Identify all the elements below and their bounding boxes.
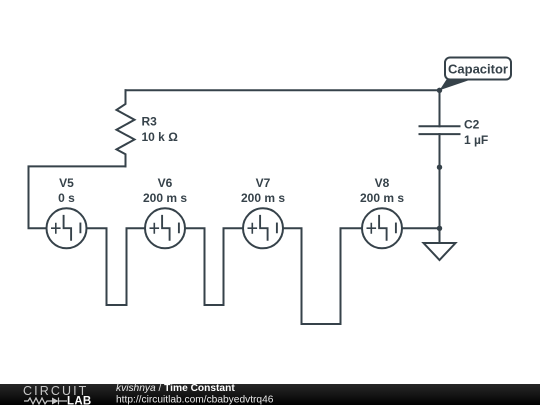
label V7 bbox=[241, 176, 285, 205]
wire V7 to V8 (deep step down) bbox=[283, 228, 362, 324]
node A (top capacitor node) bbox=[437, 88, 442, 93]
label V5 bbox=[58, 176, 75, 205]
label C2 value bbox=[464, 118, 488, 148]
svg-text:http://circuitlab.com/cbabyedv: http://circuitlab.com/cbabyedvtrq46 bbox=[116, 395, 274, 405]
resistor R3 bbox=[117, 90, 135, 166]
label V6 bbox=[143, 176, 187, 205]
wire top horizontal bbox=[126, 89, 440, 91]
svg-text:C2: C2 bbox=[464, 118, 480, 132]
voltage source V5 bbox=[47, 208, 87, 248]
ground bbox=[424, 228, 456, 260]
svg-text:200 m s: 200 m s bbox=[360, 191, 404, 205]
node C (ground junction) bbox=[437, 226, 442, 231]
wire C2 bottom to ground node bbox=[439, 167, 441, 228]
footer bar bbox=[0, 384, 540, 405]
svg-text:V8: V8 bbox=[375, 176, 390, 190]
wire from R3 bottom to V5 bbox=[29, 166, 126, 228]
wire V6 to V7 (step down) bbox=[185, 228, 243, 305]
svg-text:V5: V5 bbox=[59, 176, 74, 190]
voltage source V7 bbox=[243, 208, 283, 248]
svg-text:200 m s: 200 m s bbox=[143, 191, 187, 205]
svg-text:1 µF: 1 µF bbox=[464, 133, 488, 147]
svg-text:0 s: 0 s bbox=[58, 191, 75, 205]
svg-text:Capacitor: Capacitor bbox=[448, 62, 508, 77]
svg-text:10 k Ω: 10 k Ω bbox=[142, 130, 179, 144]
capacitor C2 bbox=[420, 90, 460, 167]
wire V5 to V6 (step down) bbox=[87, 228, 146, 305]
svg-text:V6: V6 bbox=[158, 176, 173, 190]
svg-text:R3: R3 bbox=[142, 115, 158, 129]
svg-text:LAB: LAB bbox=[67, 396, 92, 405]
node B (C2 bottom junction) bbox=[437, 165, 442, 170]
svg-text:kvishnya / Time Constant: kvishnya / Time Constant bbox=[116, 383, 235, 394]
label V8 bbox=[360, 176, 404, 205]
svg-text:V7: V7 bbox=[256, 176, 271, 190]
label R3 value bbox=[142, 115, 179, 145]
voltage source V6 bbox=[145, 208, 185, 248]
wire V8 to ground node bbox=[402, 227, 440, 229]
svg-text:200 m s: 200 m s bbox=[241, 191, 285, 205]
Capacitor annotation flag bbox=[440, 58, 512, 91]
footer logo resistor-diode glyph bbox=[24, 398, 67, 405]
voltage source V8 bbox=[362, 208, 402, 248]
